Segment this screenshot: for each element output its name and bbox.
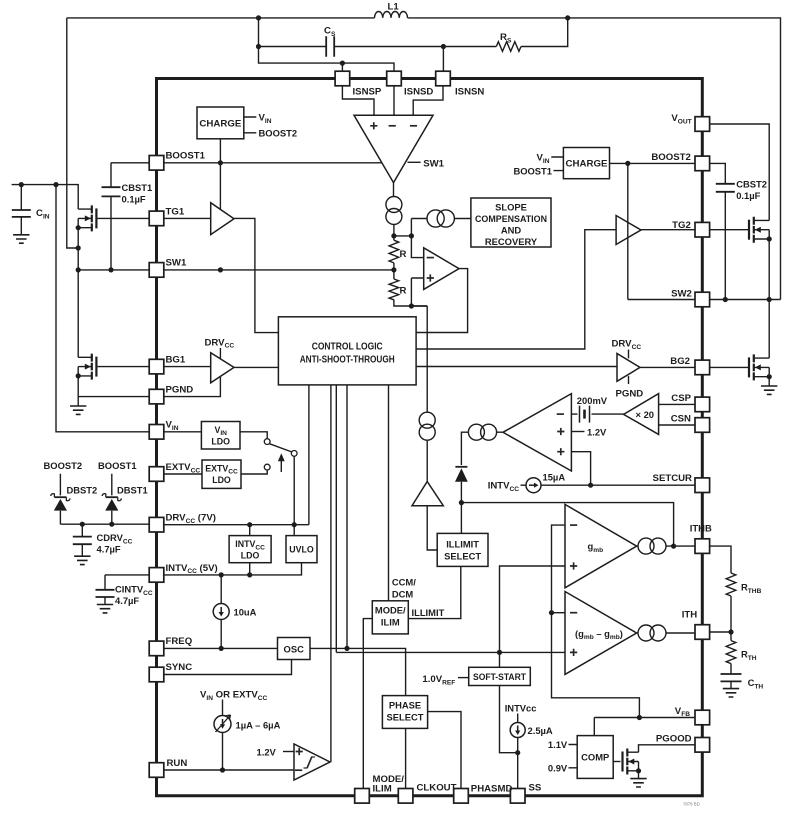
svg-text:SW2: SW2 [671, 289, 692, 300]
svg-text:CHARGE: CHARGE [566, 159, 608, 169]
svg-text:SS: SS [529, 783, 542, 794]
svg-text:7879 BD: 7879 BD [683, 802, 700, 807]
svg-text:BOOST1: BOOST1 [513, 166, 552, 177]
svg-text:BOOST1: BOOST1 [98, 460, 137, 471]
svg-text:ILLIMIT: ILLIMIT [412, 607, 445, 618]
svg-text:1.1V: 1.1V [548, 739, 568, 750]
svg-text:ITHB: ITHB [690, 524, 712, 535]
svg-text:CONTROL LOGIC: CONTROL LOGIC [312, 341, 383, 352]
svg-text:ILIM: ILIM [373, 783, 392, 794]
svg-text:L1: L1 [388, 2, 400, 13]
svg-text:1.2V: 1.2V [587, 426, 607, 437]
svg-text:MODE/: MODE/ [375, 604, 406, 615]
svg-text:SW1: SW1 [423, 159, 444, 170]
svg-text:SETCUR: SETCUR [653, 473, 693, 484]
svg-text:SW1: SW1 [166, 258, 187, 269]
svg-text:RECOVERY: RECOVERY [485, 236, 538, 247]
svg-text:4.7µF: 4.7µF [97, 544, 121, 555]
svg-text:BOOST1: BOOST1 [166, 151, 206, 162]
svg-text:ISNSD: ISNSD [404, 86, 433, 97]
svg-text:PHASE: PHASE [389, 699, 421, 710]
svg-text:PGOOD: PGOOD [656, 733, 692, 744]
svg-text:LDO: LDO [212, 475, 231, 485]
svg-text:CBST2: CBST2 [736, 179, 767, 190]
svg-text:UVLO: UVLO [289, 545, 314, 555]
svg-text:ILLIMIT: ILLIMIT [446, 538, 479, 549]
svg-text:BG1: BG1 [166, 355, 186, 366]
svg-text:BOOST2: BOOST2 [44, 460, 83, 471]
svg-text:LDO: LDO [211, 436, 230, 446]
svg-text:COMP: COMP [581, 752, 609, 763]
svg-text:ISNSP: ISNSP [353, 86, 382, 97]
svg-text:BOOST2: BOOST2 [651, 152, 690, 163]
svg-text:PHASMD: PHASMD [471, 784, 513, 795]
svg-text:R: R [400, 249, 407, 260]
svg-text:ITH: ITH [682, 610, 698, 621]
svg-text:SELECT: SELECT [387, 712, 424, 723]
svg-text:200mV: 200mV [577, 395, 608, 406]
svg-text:4.7µF: 4.7µF [115, 595, 139, 606]
svg-text:1.2V: 1.2V [257, 746, 277, 757]
svg-text:CBST1: CBST1 [122, 182, 153, 193]
svg-text:OSC: OSC [284, 643, 305, 654]
svg-text:CSP: CSP [671, 393, 691, 404]
svg-text:COMPENSATION: COMPENSATION [475, 213, 547, 224]
svg-text:AND: AND [501, 225, 522, 236]
svg-text:ISNSN: ISNSN [455, 86, 484, 97]
svg-text:SOFT-START: SOFT-START [473, 671, 526, 682]
svg-text:SLOPE: SLOPE [495, 202, 527, 213]
svg-text:PGND: PGND [166, 385, 194, 396]
svg-text:CHARGE: CHARGE [199, 119, 241, 129]
svg-text:TG1: TG1 [166, 207, 185, 218]
svg-text:CCM/: CCM/ [392, 576, 416, 587]
svg-text:0.1µF: 0.1µF [122, 194, 146, 205]
svg-text:0.9V: 0.9V [548, 763, 568, 774]
svg-text:CLKOUT: CLKOUT [417, 782, 457, 793]
svg-text:10uA: 10uA [234, 607, 257, 618]
svg-text:SELECT: SELECT [444, 550, 481, 561]
svg-text:ANTI-SHOOT-THROUGH: ANTI-SHOOT-THROUGH [300, 355, 395, 366]
svg-text:× 20: × 20 [636, 409, 655, 420]
svg-text:2.5µA: 2.5µA [528, 725, 553, 736]
svg-text:SYNC: SYNC [166, 662, 193, 673]
svg-text:CSN: CSN [671, 414, 691, 425]
svg-text:FREQ: FREQ [166, 636, 193, 647]
svg-text:BG2: BG2 [670, 356, 690, 367]
svg-text:INTVcc: INTVcc [505, 703, 537, 714]
svg-text:DBST2: DBST2 [67, 485, 98, 496]
svg-text:DCM: DCM [392, 588, 414, 599]
svg-text:DBST1: DBST1 [117, 485, 148, 496]
svg-text:RUN: RUN [167, 758, 188, 769]
svg-text:LDO: LDO [241, 550, 260, 560]
svg-text:0.1µF: 0.1µF [736, 190, 760, 201]
svg-text:ILIM: ILIM [381, 616, 400, 627]
svg-text:R: R [400, 286, 407, 297]
svg-text:1µA – 6µA: 1µA – 6µA [236, 720, 281, 731]
svg-text:15µA: 15µA [543, 471, 566, 482]
svg-text:PGND: PGND [616, 389, 644, 400]
svg-text:BOOST2: BOOST2 [259, 128, 298, 139]
